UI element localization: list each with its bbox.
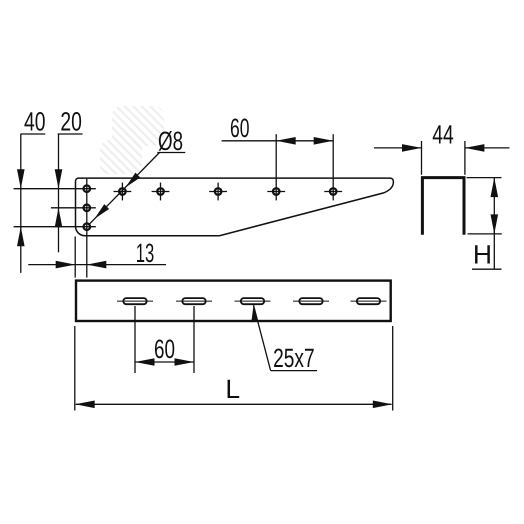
- hole D (row): [119, 188, 126, 195]
- ext line 44 left: [421, 141, 423, 175]
- arrow 40 down: [17, 169, 25, 189]
- bottom view rectangle: [76, 281, 391, 321]
- ext line H top: [467, 177, 502, 179]
- extension line through hole A (40/20 upper): [14, 188, 96, 190]
- svg-text:60: 60: [230, 113, 250, 143]
- arrow 20 down: [55, 169, 63, 189]
- slot 5: [357, 298, 380, 304]
- dim H vertical: [493, 178, 495, 270]
- arrow leader O8 at hole C: [95, 204, 110, 219]
- arrow 60 bottom right: [175, 358, 195, 366]
- dim 44 line left: [374, 147, 422, 149]
- svg-text:13: 13: [136, 238, 155, 268]
- hole F (row): [215, 188, 222, 195]
- arrow 60 top right: [314, 137, 334, 145]
- arrow H up: [491, 178, 499, 198]
- ext line L right: [392, 326, 394, 411]
- slot 4: [299, 298, 322, 304]
- svg-text:H: H: [473, 239, 492, 269]
- svg-text:60: 60: [154, 334, 175, 364]
- arrow 13 left: [56, 261, 75, 269]
- slot 3: [241, 298, 264, 304]
- arrow leader 25x7: [251, 305, 258, 322]
- ext line L left: [74, 326, 76, 411]
- slot 2: [182, 298, 205, 304]
- extension line through hole B (20 lower): [51, 207, 96, 209]
- hole C (left column bottom): [84, 223, 91, 230]
- arrow leader O8 at hole D: [126, 173, 141, 188]
- U-profile section: [422, 178, 464, 235]
- ext line 13 left (bracket edge): [74, 237, 76, 278]
- svg-text:20: 20: [60, 107, 82, 137]
- arrow 20 up: [55, 208, 63, 228]
- ext line 60 bottom right: [193, 306, 195, 373]
- hole E (row): [157, 188, 164, 195]
- dim 20 line: [58, 133, 83, 135]
- hole A (left column top): [84, 185, 91, 192]
- svg-text:Ø8: Ø8: [158, 126, 183, 156]
- arrow L right: [373, 401, 393, 409]
- dim 60 bottom line: [135, 361, 194, 363]
- leader line Ø8: [89, 153, 160, 225]
- hole G (row, 60-dim left): [273, 188, 280, 195]
- arrow 60 bottom left: [135, 358, 155, 366]
- ext line H bottom: [468, 233, 502, 235]
- svg-text:40: 40: [24, 107, 46, 137]
- dim L line: [76, 403, 392, 405]
- arrow 40 up: [17, 227, 25, 247]
- dim 44 line right: [465, 147, 510, 149]
- leader 25x7: [254, 305, 271, 370]
- ext line 44 right: [464, 141, 466, 175]
- hole column centerline: [86, 179, 88, 236]
- ext line 60 bottom left: [134, 306, 136, 373]
- arrow 44 right: [465, 144, 485, 152]
- ext line 60 top right: [332, 134, 334, 200]
- ext line 60 top left: [275, 134, 277, 200]
- arrow 60 top left: [276, 137, 296, 145]
- extension line through hole C (40 lower): [14, 226, 96, 228]
- dim 13 line: [28, 264, 166, 266]
- svg-text:25x7: 25x7: [273, 343, 315, 373]
- ext line 13 right (hole column): [86, 237, 88, 278]
- arrow 44 left: [402, 144, 422, 152]
- underline H: [472, 268, 502, 270]
- arrow L left: [75, 401, 95, 409]
- hole B (left column middle): [84, 205, 91, 212]
- arrow 13 right: [87, 261, 107, 269]
- dim 60 top line: [222, 140, 334, 142]
- arrow H down: [491, 214, 499, 234]
- dim 40 line: [21, 133, 46, 135]
- svg-text:44: 44: [432, 120, 454, 150]
- watermark: [100, 106, 164, 174]
- hole H2 (row, 60-dim right): [330, 188, 337, 195]
- svg-text:L: L: [225, 374, 240, 404]
- slot 1: [123, 298, 146, 304]
- bracket side-view outline: [76, 178, 394, 236]
